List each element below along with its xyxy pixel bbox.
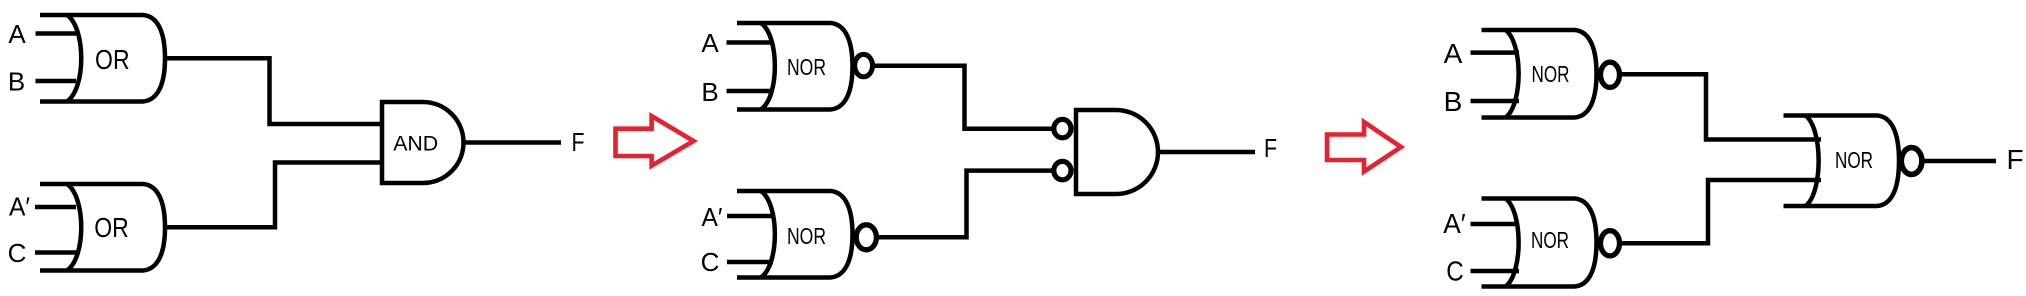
wire: input A stub to U1 (36, 31, 77, 36)
wire: input A stub to U7 (1471, 50, 1520, 55)
svg-text:C: C (8, 238, 27, 268)
svg-text:NOR: NOR (1835, 147, 1873, 173)
svg-text:F: F (572, 127, 585, 157)
svg-text:C: C (701, 247, 720, 277)
wire: input C stub to U2 (35, 250, 76, 255)
svg-text:A: A (1444, 38, 1463, 69)
svg-text:B: B (1444, 86, 1463, 117)
svg-text:A′: A′ (1443, 208, 1466, 239)
nor-gate U9 (output F) (1784, 116, 1922, 207)
wire: input C stub to U8 (1471, 269, 1520, 274)
and-gate-with-inverted-inputs U6 (output F) (1054, 110, 1158, 194)
svg-text:NOR: NOR (787, 54, 826, 80)
wire: input A' stub to U8 (1471, 222, 1520, 227)
svg-text:A: A (8, 19, 26, 49)
wire: input A' stub to U5 (727, 214, 773, 219)
wire: U5 output to NAND gate U6 input bubble 2 (878, 171, 1052, 238)
nor-gate U4 (inputs A,B) (737, 23, 872, 110)
nor-gate U8 (inputs A',C) (1482, 199, 1620, 287)
wire: input B stub to U1 (36, 79, 77, 84)
wire: U9 output to node F (1923, 159, 1996, 164)
svg-text:AND: AND (393, 132, 438, 156)
wire: U6 output to node F (1158, 150, 1255, 155)
red transform arrow 1 (616, 116, 694, 166)
svg-text:NOR: NOR (787, 223, 826, 249)
svg-text:NOR: NOR (1532, 61, 1570, 87)
svg-text:A′: A′ (702, 202, 723, 232)
svg-text:OR: OR (94, 212, 129, 243)
svg-text:NOR: NOR (1531, 227, 1569, 253)
svg-text:OR: OR (95, 44, 130, 75)
wire: U1 output to AND gate U3 input 1 (165, 58, 384, 124)
svg-text:C: C (1446, 256, 1464, 287)
nor-gate U5 (inputs A',C) (737, 191, 876, 278)
nor-gate U7 (inputs A,B) (1482, 30, 1620, 118)
and-gate U3 (output F) (382, 102, 464, 183)
svg-text:F: F (2006, 144, 2023, 175)
svg-text:B: B (8, 67, 25, 97)
svg-text:A: A (701, 28, 719, 58)
svg-text:F: F (1264, 133, 1277, 163)
or-gate U2 (inputs A',C) (40, 184, 165, 271)
svg-text:B: B (701, 77, 718, 107)
wire: input B stub to U4 (727, 89, 774, 94)
wire: U2 output to AND gate U3 input 2 (165, 163, 384, 228)
wire: input B stub to U7 (1471, 99, 1520, 104)
wire: input A' stub to U2 (35, 205, 76, 210)
or-gate U1 (inputs A,B) (40, 15, 165, 102)
wire: U8 output to NOR gate U9 input 2 (1621, 180, 1821, 243)
red transform arrow 2 (1327, 122, 1401, 172)
svg-text:A′: A′ (9, 192, 30, 222)
wire: U7 output to NOR gate U9 input 1 (1621, 74, 1821, 139)
wire: U4 output to NAND gate U6 input bubble 1 (874, 66, 1052, 129)
wire: input A stub to U4 (727, 40, 774, 45)
wire: U3 output to node F (464, 140, 562, 145)
wire: input C stub to U5 (727, 260, 773, 265)
